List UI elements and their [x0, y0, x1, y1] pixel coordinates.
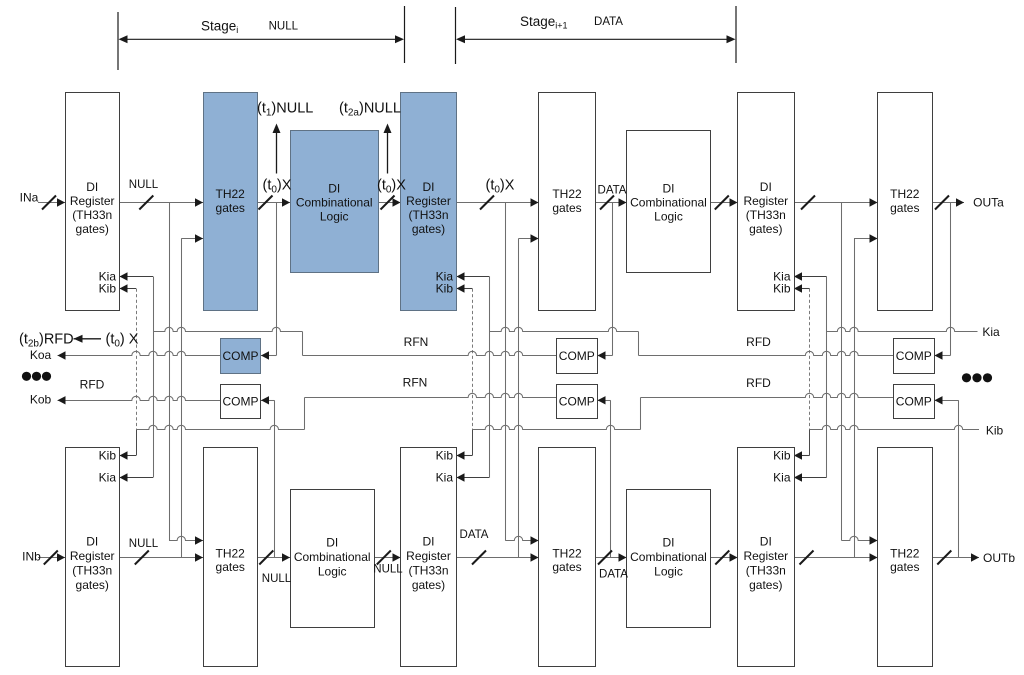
- svg-text:(TH33n: (TH33n: [408, 564, 448, 578]
- svg-text:COMP: COMP: [223, 395, 259, 409]
- svg-text:DI: DI: [326, 536, 338, 550]
- svg-text:DI: DI: [423, 180, 435, 194]
- svg-text:DATA: DATA: [599, 569, 628, 581]
- svg-text:Kib: Kib: [99, 448, 117, 462]
- svg-text:(TH33n: (TH33n: [408, 208, 448, 222]
- svg-text:DATA: DATA: [594, 16, 623, 28]
- svg-text:gates: gates: [216, 201, 245, 215]
- svg-text:INb: INb: [22, 550, 41, 564]
- svg-text:Kib: Kib: [436, 448, 454, 462]
- svg-text:Stagei: Stagei: [201, 19, 238, 36]
- svg-text:TH22: TH22: [216, 547, 246, 561]
- svg-text:RFD: RFD: [746, 335, 771, 349]
- svg-text:(TH33n: (TH33n: [72, 208, 112, 222]
- svg-text:gates): gates): [749, 578, 782, 592]
- svg-text:COMP: COMP: [896, 349, 932, 363]
- svg-text:Register: Register: [70, 549, 115, 563]
- svg-text:TH22: TH22: [890, 547, 920, 561]
- svg-text:Register: Register: [406, 549, 451, 563]
- svg-text:TH22: TH22: [890, 187, 920, 201]
- svg-text:Register: Register: [406, 194, 451, 208]
- svg-text:DI: DI: [423, 535, 435, 549]
- svg-text:TH22: TH22: [552, 187, 582, 201]
- svg-text:Kib: Kib: [773, 281, 791, 295]
- svg-text:Register: Register: [743, 194, 788, 208]
- svg-text:Combinational: Combinational: [630, 550, 707, 564]
- svg-text:RFD: RFD: [80, 378, 105, 392]
- svg-text:Logic: Logic: [654, 565, 683, 579]
- svg-text:Kia: Kia: [773, 470, 791, 484]
- svg-text:RFN: RFN: [404, 335, 429, 349]
- svg-text:DI: DI: [760, 535, 772, 549]
- svg-text:(t0)X: (t0)X: [263, 177, 292, 195]
- svg-text:(TH33n: (TH33n: [72, 564, 112, 578]
- svg-text:(TH33n: (TH33n: [746, 208, 786, 222]
- svg-text:NULL: NULL: [129, 538, 159, 550]
- svg-text:Combinational: Combinational: [294, 550, 371, 564]
- svg-text:gates: gates: [552, 560, 581, 574]
- svg-text:(t0)X: (t0)X: [486, 177, 515, 195]
- svg-text:RFN: RFN: [403, 376, 428, 390]
- svg-text:OUTb: OUTb: [983, 551, 1015, 565]
- svg-text:DATA: DATA: [598, 184, 627, 196]
- svg-text:Combinational: Combinational: [296, 196, 373, 210]
- svg-text:DI: DI: [86, 180, 98, 194]
- svg-text:INa: INa: [20, 190, 39, 204]
- svg-text:COMP: COMP: [896, 395, 932, 409]
- svg-text:DI: DI: [328, 182, 340, 196]
- svg-text:RFD: RFD: [746, 376, 771, 390]
- svg-text:Register: Register: [70, 194, 115, 208]
- svg-text:NULL: NULL: [373, 563, 403, 575]
- svg-text:Logic: Logic: [654, 210, 683, 224]
- svg-text:TH22: TH22: [552, 547, 582, 561]
- svg-text:gates: gates: [552, 201, 581, 215]
- svg-text:Kib: Kib: [436, 281, 454, 295]
- svg-text:Combinational: Combinational: [630, 196, 707, 210]
- svg-text:gates): gates): [412, 222, 445, 236]
- svg-text:Logic: Logic: [318, 565, 347, 579]
- svg-text:NULL: NULL: [129, 179, 159, 191]
- svg-text:COMP: COMP: [559, 395, 595, 409]
- svg-text:(TH33n: (TH33n: [746, 564, 786, 578]
- svg-text:DI: DI: [663, 536, 675, 550]
- svg-text:Koa: Koa: [30, 348, 52, 362]
- svg-text:TH22: TH22: [216, 187, 246, 201]
- svg-text:NULL: NULL: [269, 21, 299, 33]
- svg-text:(t0) X: (t0) X: [106, 332, 139, 350]
- svg-text:Kob: Kob: [30, 392, 52, 406]
- svg-text:Kib: Kib: [773, 448, 791, 462]
- svg-text:gates): gates): [76, 222, 109, 236]
- svg-text:Kib: Kib: [986, 424, 1004, 438]
- svg-text:Register: Register: [743, 549, 788, 563]
- svg-text:gates: gates: [890, 560, 919, 574]
- svg-text:Kia: Kia: [436, 470, 454, 484]
- svg-text:(t1)NULL: (t1)NULL: [257, 101, 313, 119]
- svg-text:gates): gates): [76, 578, 109, 592]
- svg-text:DI: DI: [760, 180, 772, 194]
- svg-text:DI: DI: [663, 182, 675, 196]
- svg-text:gates: gates: [216, 560, 245, 574]
- svg-text:OUTa: OUTa: [973, 196, 1004, 210]
- svg-text:Logic: Logic: [320, 210, 349, 224]
- svg-text:DI: DI: [86, 535, 98, 549]
- svg-text:NULL: NULL: [262, 573, 292, 585]
- svg-text:COMP: COMP: [559, 349, 595, 363]
- svg-text:(t0)X: (t0)X: [377, 177, 406, 195]
- svg-text:Kib: Kib: [99, 281, 117, 295]
- svg-text:gates): gates): [749, 222, 782, 236]
- svg-text:gates: gates: [890, 201, 919, 215]
- svg-text:Kia: Kia: [982, 325, 1000, 339]
- svg-text:gates): gates): [412, 578, 445, 592]
- svg-text:DATA: DATA: [460, 529, 489, 541]
- svg-text:COMP: COMP: [223, 349, 259, 363]
- svg-text:Kia: Kia: [99, 470, 117, 484]
